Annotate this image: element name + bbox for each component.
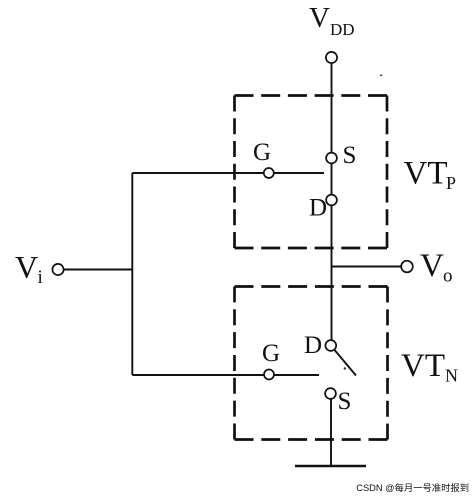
terminal circle VDD xyxy=(326,52,337,63)
node dot near open switch xyxy=(344,367,346,369)
svg-text:S: S xyxy=(343,142,357,169)
ground xyxy=(295,465,366,468)
svg-text:o: o xyxy=(443,266,453,287)
wire S to D (VTP closed switch) xyxy=(331,158,333,200)
label V_i xyxy=(15,249,43,288)
transistor VTP dashed box xyxy=(235,96,388,249)
pin circle G of VTN xyxy=(264,370,274,380)
terminal circle Vi xyxy=(52,264,63,275)
stray speck top right xyxy=(380,75,382,77)
label V_o xyxy=(420,248,453,287)
svg-text:VT: VT xyxy=(404,155,448,191)
svg-text:V: V xyxy=(420,248,444,284)
svg-text:CSDN @每月一号准时报到: CSDN @每月一号准时报到 xyxy=(356,482,469,493)
svg-text:P: P xyxy=(446,173,456,193)
wire open switch arm of VTN xyxy=(331,346,356,376)
svg-text:D: D xyxy=(309,195,327,222)
svg-text:DD: DD xyxy=(330,20,355,39)
svg-text:G: G xyxy=(262,340,280,367)
svg-text:i: i xyxy=(38,267,43,288)
pin circle S of VTN xyxy=(325,388,336,399)
svg-text:G: G xyxy=(253,139,271,166)
wire S of VTN to ground xyxy=(330,399,332,466)
svg-text:D: D xyxy=(304,332,322,359)
svg-text:S: S xyxy=(338,388,352,415)
label VT_N xyxy=(401,348,458,386)
svg-text:VT: VT xyxy=(401,348,445,384)
wire VDD stem xyxy=(331,63,333,158)
terminal circle Vo xyxy=(401,261,413,273)
pin circle G of VTP xyxy=(264,168,274,178)
wire Vi input xyxy=(64,269,133,271)
svg-text:V: V xyxy=(15,249,38,285)
transistor VTN dashed box xyxy=(235,287,388,440)
pin circle D of VTP xyxy=(326,195,337,206)
pin circle S of VTP xyxy=(326,153,337,164)
label VT_P xyxy=(404,155,457,193)
pin circle D of VTN xyxy=(325,340,336,351)
wire D of VTP down to output node and D of VTN xyxy=(331,200,333,345)
svg-text:V: V xyxy=(309,2,330,34)
wire Vo output tap xyxy=(332,266,402,268)
label V_DD xyxy=(309,2,355,39)
wire gate of VTN xyxy=(132,374,319,376)
svg-text:N: N xyxy=(445,366,458,386)
wire gate of VTP xyxy=(132,172,324,174)
wire input bus vertical xyxy=(131,173,133,375)
